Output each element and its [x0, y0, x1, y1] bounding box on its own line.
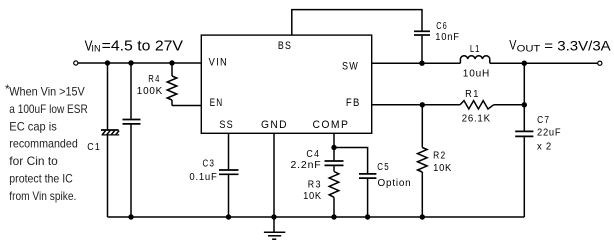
wire R2 bottom lead [421, 172, 423, 217]
resistor R4 [167, 76, 177, 100]
wire EN [172, 105, 201, 107]
svg-text:C1: C1 [87, 142, 101, 153]
svg-text:C5: C5 [377, 162, 390, 173]
wire Vout vertical upper [523, 63, 525, 131]
wire BS pin [292, 10, 422, 35]
svg-text:R3: R3 [308, 179, 322, 190]
label VOUT = 3.3V/3A [509, 37, 610, 53]
svg-text:R1: R1 [465, 89, 480, 100]
capacitor C4 [325, 161, 344, 165]
node SW / C6 [419, 61, 424, 66]
svg-text:a 100uF low ESR: a 100uF low ESR [9, 102, 88, 116]
svg-text:10K: 10K [303, 191, 322, 202]
wire COMP pin lead [333, 133, 335, 160]
svg-text:EN: EN [210, 97, 224, 109]
wire Cin branch lower [130, 125, 132, 217]
svg-text:VIN: VIN [209, 57, 228, 69]
svg-text:COMP: COMP [313, 119, 350, 131]
node ground rail / C5 [365, 214, 370, 219]
svg-text:x 2: x 2 [537, 142, 552, 153]
svg-text:L1: L1 [470, 44, 480, 55]
wire R3 bottom lead [333, 197, 335, 217]
svg-text:2.2nF: 2.2nF [291, 160, 322, 171]
svg-text:C4: C4 [306, 149, 320, 160]
wire C4 to R3 [333, 166, 335, 171]
wire C1 branch lower [107, 136, 109, 218]
wire Vout vertical lower [523, 137, 525, 217]
wire R4 bottom lead [171, 100, 173, 106]
wire C5 bottom lead [367, 179, 369, 217]
wire input rail [78, 62, 201, 64]
input terminal [74, 61, 78, 65]
node SW / Vout [522, 61, 527, 66]
svg-text:GND: GND [261, 119, 288, 131]
svg-text:Option: Option [378, 178, 412, 189]
svg-text:for Cin to: for Cin to [9, 154, 58, 168]
svg-text:IN: IN [91, 43, 100, 53]
wire COMP to C5 [334, 148, 368, 174]
svg-text:protect the IC: protect the IC [9, 172, 73, 186]
svg-text:R2: R2 [433, 151, 447, 162]
svg-text:EC cap is: EC cap is [9, 119, 57, 133]
resistor R3 [329, 172, 339, 198]
resistor R2 [418, 148, 428, 173]
svg-text:SW: SW [342, 60, 359, 72]
capacitor C6 [414, 31, 430, 35]
wire SW [372, 62, 461, 64]
svg-text:26.1K: 26.1K [462, 114, 491, 125]
node ground rail / GND [271, 214, 276, 219]
svg-text:FB: FB [346, 97, 361, 109]
IC U1 body [201, 35, 371, 133]
svg-text:10K: 10K [433, 163, 452, 174]
capacitor C7 [515, 131, 533, 136]
wire GND pin lead [273, 133, 275, 217]
node input rail / Cin [128, 60, 133, 65]
node input rail / C1 [105, 60, 110, 65]
wire Cin branch upper [130, 63, 132, 119]
svg-text:C6: C6 [436, 21, 448, 32]
svg-text:BS: BS [278, 40, 292, 52]
svg-text:C7: C7 [537, 115, 550, 126]
wire FB right segment [494, 104, 525, 106]
ground [264, 217, 285, 239]
node FB / Vout [522, 102, 527, 107]
wire R2 top lead [421, 105, 423, 148]
wire C3 bottom lead [228, 175, 230, 217]
node ground rail / Cin [128, 214, 133, 219]
capacitor C1 (hatched electrolytic) [101, 130, 119, 135]
node FB / R2 [420, 102, 425, 107]
svg-text:recommanded: recommanded [9, 137, 78, 151]
output terminal [598, 61, 602, 65]
svg-text:0.1uF: 0.1uF [189, 172, 217, 183]
node COMP / C4 / C5 [331, 145, 336, 150]
svg-text:from Vin spike.: from Vin spike. [9, 189, 76, 203]
wire C6 to SW [421, 36, 423, 64]
wire FB left segment [372, 104, 460, 106]
wire C1 branch upper [107, 63, 109, 129]
svg-text:When Vin >15V: When Vin >15V [9, 85, 85, 99]
svg-text:V: V [509, 37, 516, 52]
inductor L1 [460, 56, 489, 63]
label VIN=4.5 to 27V [85, 39, 184, 55]
svg-text:SS: SS [219, 119, 234, 131]
wire SS pin lead [228, 133, 230, 169]
svg-text:22uF: 22uF [537, 128, 561, 139]
svg-text:= 3.3V/3A: = 3.3V/3A [544, 38, 610, 53]
node input rail / R4 [169, 60, 174, 65]
node ground rail / C3 [226, 214, 231, 219]
capacitor C3 [219, 170, 239, 174]
capacitor C5 [359, 174, 376, 178]
svg-text:10nF: 10nF [435, 32, 460, 43]
node ground rail / R2 [420, 214, 425, 219]
svg-text:100K: 100K [137, 86, 163, 97]
svg-text:R4: R4 [148, 74, 160, 85]
capacitor Cin (unlabeled input cap) [123, 120, 141, 124]
svg-text:=4.5 to 27V: =4.5 to 27V [102, 39, 184, 55]
svg-text:C3: C3 [203, 158, 216, 169]
wire ground rail [108, 216, 525, 218]
node ground rail / R3 [331, 214, 336, 219]
wire L1 to output [490, 62, 598, 64]
svg-text:OUT: OUT [517, 44, 541, 54]
svg-text:10uH: 10uH [463, 69, 490, 80]
wire R4 top lead [171, 63, 173, 76]
resistor R1 [460, 101, 494, 109]
